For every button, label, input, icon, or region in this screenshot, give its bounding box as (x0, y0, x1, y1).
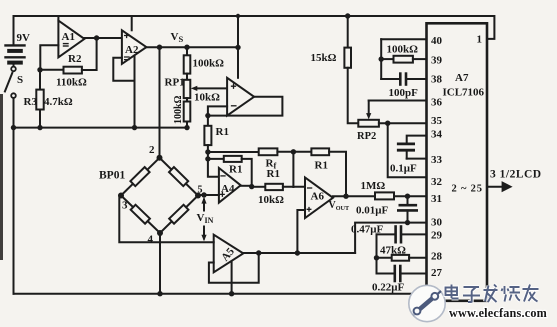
integrator cluster junction column (376, 234, 378, 273)
resistor 100k pins 40-39 loop (379, 39, 427, 79)
watermark chinese glyphs halo (446, 285, 539, 303)
capacitor 0.01uF (398, 196, 416, 225)
node A6 feedback junction (343, 194, 348, 199)
svg-text:0.1μF: 0.1μF (390, 163, 417, 175)
svg-text:S: S (17, 74, 23, 86)
svg-text:39: 39 (431, 55, 443, 67)
svg-text:2: 2 (149, 144, 155, 156)
node dot A1 output feedback (94, 35, 99, 40)
svg-text:A4: A4 (221, 183, 235, 195)
node dot A1 inverting / R2 / R3 (37, 67, 42, 72)
svg-text:BP01: BP01 (99, 170, 125, 182)
svg-text:R2: R2 (68, 53, 82, 65)
svg-text:0.01μF: 0.01μF (356, 205, 388, 217)
resistor Rf row1 (208, 148, 312, 155)
svg-text:A1: A1 (62, 31, 75, 43)
svg-text:A2: A2 (125, 44, 139, 56)
node pin31 junction (405, 194, 410, 199)
battery 9V (6, 16, 25, 66)
svg-text:3: 3 (122, 200, 128, 212)
svg-text:100pF: 100pF (389, 87, 419, 99)
svg-text:R1: R1 (315, 160, 328, 172)
resistor 100k upper of divider (184, 47, 191, 80)
svg-text:29: 29 (431, 230, 443, 242)
wire top supply rail (14, 16, 495, 39)
node dot left rail / mid bus (11, 125, 16, 130)
LCD output arrow (487, 181, 513, 192)
svg-text:A7: A7 (455, 72, 469, 84)
op-amp A4 (219, 168, 252, 203)
svg-text:31: 31 (431, 193, 442, 205)
svg-text:36: 36 (431, 97, 443, 109)
switch S (5, 67, 16, 98)
svg-text:34: 34 (431, 129, 443, 141)
svg-text:0.22μF: 0.22μF (372, 282, 404, 294)
svg-text:4: 4 (148, 234, 154, 246)
left scan edge smudge (0, 94, 3, 260)
svg-text:10kΩ: 10kΩ (258, 194, 284, 206)
svg-text:32: 32 (431, 176, 443, 188)
wire A2 output node Vs (146, 46, 238, 48)
svg-text:1: 1 (477, 34, 483, 46)
svg-text:35: 35 (431, 115, 443, 127)
resistor 47k pin28 row (377, 255, 427, 261)
VIN measure arrow (201, 197, 206, 241)
watermark chinese text dianzifashaoyou (446, 285, 539, 303)
wire node4 column to bottom bus (159, 233, 161, 294)
capacitor 100pF pin38 row (381, 74, 426, 85)
resistor R2 110k feedback (40, 38, 97, 74)
svg-text:3 1/2LCD: 3 1/2LCD (490, 169, 542, 181)
svg-text:2 ~ 25: 2 ~ 25 (452, 184, 483, 195)
wire RP2 tap column to pin32 row (388, 123, 427, 177)
resistor R1 row1 right (311, 148, 346, 196)
svg-text:27: 27 (431, 267, 443, 279)
svg-text:100kΩ: 100kΩ (387, 44, 419, 56)
wire bottom bus (14, 293, 425, 295)
op-amp A2 (113, 16, 146, 130)
resistor 10k row2 (252, 184, 305, 190)
svg-text:33: 33 (431, 154, 443, 166)
resistor R1 vertical (204, 116, 219, 177)
capacitor 0.22uF pin27 row (377, 266, 427, 281)
svg-text:R1: R1 (216, 126, 229, 138)
wire A5 output row (243, 252, 355, 254)
op-amp A3 (205, 78, 282, 119)
op-amp A6 (297, 178, 333, 253)
wire A6 output row (333, 195, 427, 197)
capacitor 0.47uF pin29 row (377, 227, 427, 243)
wire Vs column up to rail and down to A3 (237, 16, 239, 78)
wire pin36 row (369, 100, 427, 102)
svg-text:30: 30 (431, 217, 443, 229)
svg-text:R1: R1 (267, 168, 280, 180)
resistor 100k lower of divider (184, 102, 191, 131)
svg-text:100kΩ: 100kΩ (173, 95, 184, 124)
svg-text:www.elecfans.com: www.elecfans.com (449, 306, 547, 320)
wire node5 to A4 (198, 194, 219, 196)
svg-text:15kΩ: 15kΩ (311, 52, 337, 64)
wire A1 output to A2 (84, 37, 122, 39)
resistor 15k (344, 13, 358, 123)
svg-text:R3: R3 (24, 96, 38, 108)
IC A7 ICL7106 body (427, 23, 488, 301)
svg-text:RP1: RP1 (165, 77, 185, 89)
wire node3 loop to A5 plus input (119, 196, 213, 243)
svg-text:10kΩ: 10kΩ (194, 92, 220, 104)
wire mid common bus (14, 127, 188, 129)
capacitor 0.1uF pins 34-33 (398, 136, 426, 159)
svg-text:0.47μF: 0.47μF (351, 224, 383, 236)
watermark logo circle (409, 285, 445, 321)
svg-text:38: 38 (431, 74, 443, 86)
svg-text:9V: 9V (17, 32, 31, 44)
svg-text:40: 40 (431, 35, 443, 47)
svg-text:5: 5 (198, 185, 203, 196)
op-amp A5 (209, 235, 259, 297)
op-amp A1 (40, 16, 84, 70)
wire row1 to row2 column (292, 152, 294, 187)
svg-text:R1: R1 (229, 164, 242, 176)
resistor 1M (375, 192, 394, 199)
svg-text:4.7kΩ: 4.7kΩ (44, 96, 73, 108)
wire node 2 column from A2 output down to bridge (159, 47, 161, 158)
svg-text:ICL7106: ICL7106 (443, 87, 485, 99)
svg-text:100kΩ: 100kΩ (193, 58, 225, 70)
node Vs junction dots (157, 45, 162, 50)
svg-text:1MΩ: 1MΩ (361, 180, 386, 192)
svg-text:110kΩ: 110kΩ (56, 77, 87, 89)
potentiometer RP1 (184, 80, 227, 102)
wire left rail down to bottom bus (13, 98, 15, 294)
svg-text:28: 28 (431, 251, 443, 263)
node rail tee dot (236, 14, 240, 18)
svg-text:47kΩ: 47kΩ (380, 245, 406, 257)
svg-text:A6: A6 (311, 191, 325, 203)
potentiometer RP2 (358, 101, 426, 127)
svg-text:RP2: RP2 (357, 131, 376, 142)
node A5 output junction dots (256, 250, 261, 255)
resistor R1 A4 feedback (208, 156, 255, 189)
bridge BP01 (118, 155, 201, 236)
resistor R3 4.7k (36, 70, 43, 131)
wire pin30 row to A5 output row (355, 223, 426, 253)
